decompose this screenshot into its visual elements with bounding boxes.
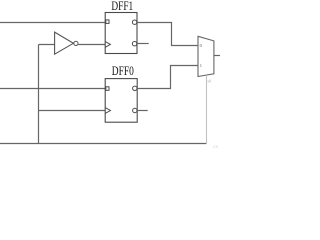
wire: mux output xyxy=(214,55,220,57)
wire: vertical clock riser x=38 xyxy=(38,45,40,144)
DFF0 D input square pin xyxy=(106,87,109,91)
DFF1 Qbar output bubble xyxy=(132,42,136,46)
flip-flop DFF0 body xyxy=(105,79,137,123)
inverter U1 bubble xyxy=(74,41,78,45)
wire: DFF0 clock wire xyxy=(39,110,106,112)
DFF1 Q output bubble xyxy=(132,20,136,24)
svg-text:cs: cs xyxy=(213,144,218,150)
multiplexer U2 trapezoid xyxy=(198,36,214,76)
wire: riser to inverter input xyxy=(39,44,56,46)
wire: DFF1 Q to mux input 0 xyxy=(137,23,198,46)
flip-flop DFF1 body xyxy=(105,13,137,54)
svg-text:1: 1 xyxy=(200,63,202,68)
DFF1 clock wedge xyxy=(105,42,110,48)
wire: D1 input net from left edge to DFF1 D xyxy=(0,22,105,24)
svg-text:s0: s0 xyxy=(208,78,212,83)
DFF0 clock wedge xyxy=(105,108,110,114)
wire: DFF1 Qbar stub xyxy=(137,43,149,45)
inverter U1 triangle xyxy=(55,32,74,54)
wire: D0 input net from left edge to DFF0 D xyxy=(0,88,105,90)
wire: DFF0 Q to mux input 1 xyxy=(137,66,198,89)
wire: bottom select/clock bus from left edge to mux select xyxy=(0,143,207,145)
svg-text:DFF1: DFF1 xyxy=(111,0,133,13)
wire: DFF0 Qbar stub xyxy=(137,110,147,112)
DFF0 Q output bubble xyxy=(133,86,137,90)
DFF0 Qbar output bubble xyxy=(133,108,137,112)
DFF1 D input square pin xyxy=(106,20,109,24)
wire: mux select line down to bottom bus xyxy=(206,75,208,143)
svg-text:DFF0: DFF0 xyxy=(112,64,134,78)
wire: inverter output to DFF1 clock xyxy=(78,44,105,46)
